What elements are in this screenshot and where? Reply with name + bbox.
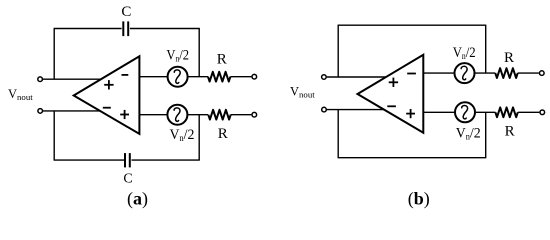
wire bottom feedback left vertical (b)	[337, 110, 339, 158]
resistor R (a top)	[208, 72, 230, 82]
svg-text:R: R	[217, 51, 227, 67]
wire bottom feedback horizontal (b)	[338, 157, 487, 159]
wire node top (a)	[188, 76, 208, 78]
wire to terminal (b bottom)	[518, 111, 540, 113]
wire top feedback right vertical (a)	[198, 29, 200, 77]
wire top feedback left vertical (b)	[337, 25, 339, 77]
plus input label (b bottom-right)	[406, 109, 415, 118]
wire input top rail (b)	[423, 72, 454, 74]
wire bottom feedback left vertical (a)	[53, 111, 55, 160]
plus output label (b top-left)	[389, 78, 398, 87]
wire node bottom (a)	[188, 114, 208, 116]
plus output label (a top-left)	[104, 80, 113, 89]
svg-text:R: R	[218, 126, 228, 142]
wire top feedback horizontal left segment (a)	[54, 28, 122, 30]
capacitor C (bottom, a)	[125, 153, 130, 167]
op-amp U2 (b) fully differential triangle	[358, 55, 424, 133]
wire input bottom rail (b)	[423, 111, 455, 113]
minus input label (b top-right)	[407, 73, 416, 75]
wire bottom feedback right vertical (b)	[485, 112, 487, 157]
wire output top (b)	[327, 76, 390, 78]
terminal output- (a)	[38, 109, 43, 114]
svg-text:C: C	[123, 171, 132, 186]
wire bottom feedback horizontal left segment (a)	[54, 159, 125, 161]
terminal output+ (b)	[322, 75, 327, 80]
wire output bottom (a)	[43, 110, 105, 112]
svg-text:(b): (b)	[408, 188, 430, 209]
noise source Vn/2 (a top)	[168, 67, 188, 87]
terminal output- (b)	[322, 107, 327, 112]
wire output bottom (b)	[327, 109, 388, 111]
wire to terminal (a top)	[230, 76, 251, 78]
noise source Vn/2 (a bottom)	[167, 105, 187, 125]
terminal right (a top)	[252, 74, 257, 79]
svg-text:(a): (a)	[127, 188, 148, 209]
resistor R (b bottom)	[495, 107, 517, 117]
minus input label (a top-right)	[122, 74, 129, 76]
terminal right (b top)	[540, 71, 545, 76]
wire node top (b)	[475, 72, 496, 74]
plus input label (a bottom-right)	[120, 110, 129, 119]
svg-text:R: R	[504, 50, 514, 66]
minus output label (a bottom-left)	[103, 107, 111, 109]
terminal output+ (a)	[38, 77, 43, 82]
wire bottom feedback horizontal right segment (a)	[132, 159, 200, 161]
wire bottom feedback right vertical (a)	[198, 115, 200, 160]
wire top feedback right vertical (b)	[485, 25, 487, 73]
wire top feedback horizontal (b)	[338, 24, 487, 26]
resistor R (b top)	[495, 68, 517, 78]
wire input top rail (a)	[139, 76, 167, 78]
wire node bottom (b)	[475, 111, 495, 113]
noise source Vn/2 (b top)	[455, 63, 475, 83]
resistor R (a bottom)	[208, 110, 230, 120]
wire output top (a)	[43, 78, 106, 80]
svg-text:C: C	[121, 4, 131, 20]
svg-text:R: R	[505, 124, 515, 140]
capacitor C (top, a)	[123, 21, 128, 36]
wire input bottom rail (a)	[139, 114, 167, 116]
terminal right (a bottom)	[252, 112, 257, 117]
wire to terminal (b top)	[518, 72, 539, 74]
wire to terminal (a bottom)	[231, 114, 252, 116]
wire top feedback horizontal right segment (a)	[130, 28, 200, 30]
noise source Vn/2 (b bottom)	[455, 102, 475, 122]
wire top feedback left vertical (a)	[53, 29, 55, 80]
op-amp U1 (a) fully differential triangle	[74, 56, 140, 134]
minus output label (b bottom-left)	[387, 105, 396, 107]
terminal right (b bottom)	[540, 110, 545, 115]
